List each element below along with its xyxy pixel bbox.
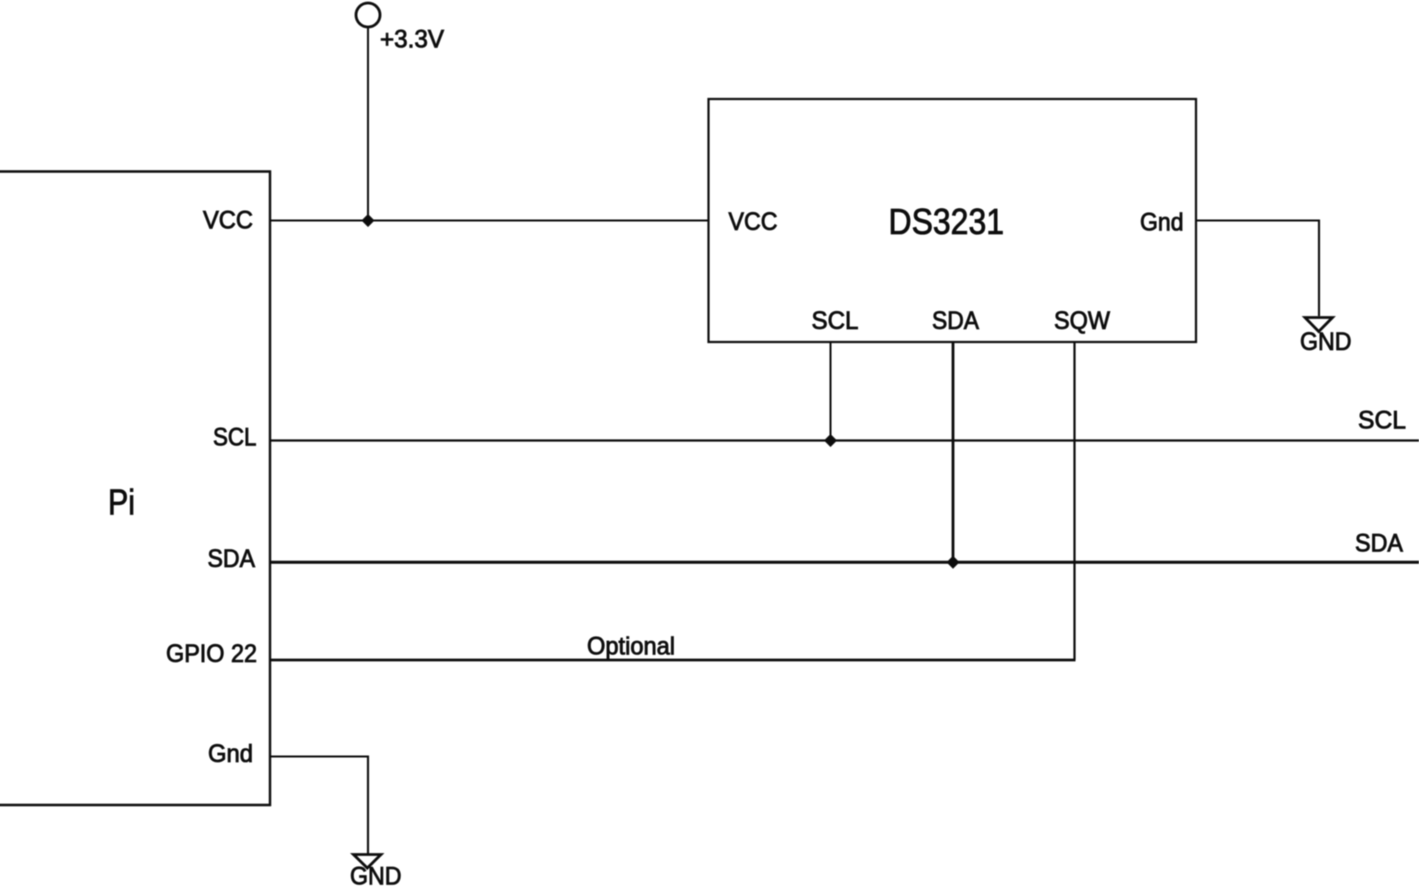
svg-text:VCC: VCC [203,207,253,235]
wire Pi Gnd to ground [270,757,368,854]
wire VCC net (Pi VCC to DS3231 VCC) [270,219,709,221]
svg-text:SCL: SCL [812,307,859,335]
svg-text:GND: GND [350,863,402,886]
svg-text:SDA: SDA [932,307,979,335]
node VCC junction [362,214,375,227]
svg-text:VCC: VCC [729,208,778,236]
svg-text:DS3231: DS3231 [889,201,1005,242]
wire DS3231 SQW pin drop [1073,342,1075,660]
svg-text:SDA: SDA [208,545,256,573]
svg-text:SQW: SQW [1054,307,1110,335]
svg-text:Gnd: Gnd [1140,209,1184,237]
svg-text:GND: GND [1300,328,1352,356]
wire SCL net [270,439,1419,441]
svg-text:GPIO 22: GPIO 22 [166,640,257,668]
component Pi (Raspberry Pi block) [0,172,270,806]
ground GND (right) [1300,318,1352,356]
svg-text:Optional: Optional [587,633,675,661]
wire DS3231 SCL pin drop [830,342,832,441]
svg-text:Pi: Pi [108,482,135,523]
wire SDA net [270,561,1419,564]
wire DS3231 SDA pin drop [952,342,955,562]
ground GND (bottom) [350,855,402,886]
svg-text:SCL: SCL [213,424,257,452]
wire DS3231 Gnd to ground [1196,221,1319,317]
wire +3.3V supply drop [367,28,369,221]
component U1 DS3231 block [709,99,1197,342]
svg-text:Gnd: Gnd [208,740,253,768]
wire GPIO 22 optional net [270,659,1076,662]
svg-text:+3.3V: +3.3V [380,26,444,54]
node SDA junction [947,556,960,569]
power terminal +3.3V [356,3,444,54]
svg-text:SDA: SDA [1355,530,1403,558]
node SCL junction [824,434,837,447]
svg-text:SCL: SCL [1358,407,1406,435]
